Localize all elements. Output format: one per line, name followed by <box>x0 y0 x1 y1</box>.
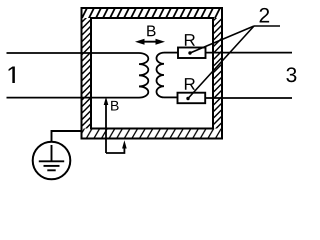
wire: port 1 upper lead + primary coil L1 top <box>7 52 140 54</box>
wire: L2 bottom to resistor R lower <box>164 96 178 98</box>
resistor R upper <box>178 48 206 59</box>
inductor L1 (primary coil) <box>139 53 148 98</box>
label R (upper resistor) <box>185 34 195 46</box>
leader line from 2 to upper resistor <box>190 26 254 53</box>
label B (magnetic field, top) <box>147 26 155 37</box>
inductor L2 (secondary coil) <box>156 53 164 98</box>
label 2 with leader underline <box>260 8 270 23</box>
resistor R lower <box>178 93 206 104</box>
shield box inner wall <box>91 18 213 129</box>
leader line from 2 to lower resistor <box>188 26 254 99</box>
label R (lower resistor) <box>185 78 195 90</box>
shield box hatched wall <box>82 8 223 139</box>
wire: primary coil bottom + port 1 lower lead <box>7 97 140 99</box>
wire: bent return arrow under shield <box>106 140 127 153</box>
label B (field, bottom) <box>111 101 118 111</box>
ground (protective earth) symbol <box>33 142 71 180</box>
label 3 (output port) <box>286 67 296 82</box>
wire: leader underline under 2 <box>254 25 280 27</box>
wire: upper output lead to port 3 <box>206 52 293 54</box>
arrow B vertical (field through shield) <box>104 97 109 153</box>
arrow B double-headed (field direction) <box>135 39 165 45</box>
label 1 (input port) <box>9 66 15 83</box>
wire: L2 top to resistor R upper <box>164 52 178 54</box>
wire: lower output lead to port 3 <box>205 97 292 99</box>
wire: ground lead from shield to earth symbol <box>52 131 82 142</box>
shield box outer wall <box>82 8 223 139</box>
